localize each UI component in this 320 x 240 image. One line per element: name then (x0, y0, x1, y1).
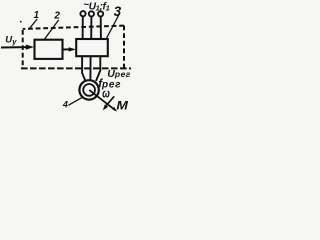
block 3 (inverter block) (76, 39, 108, 56)
wire: terminal L3 to block 3 (100, 16, 102, 39)
dashed enclosure 1, bottom edge (21, 67, 131, 69)
wire arrow from block 2 to block 3 (63, 47, 76, 51)
motor 4: outer circle (79, 80, 98, 99)
wire: control input arrow into block 2 (1, 45, 34, 50)
wire: terminal L1 to block 3 (82, 16, 84, 39)
leader line for label 2 (44, 20, 59, 40)
leader line for label 1 (29, 19, 38, 30)
leader line for label 3 (106, 15, 119, 39)
block 2 (control rectifier block) (35, 40, 63, 59)
svg-text:4: 4 (62, 99, 68, 109)
dashed enclosure 1, top edge (23, 26, 124, 29)
terminal circle L1 (80, 11, 85, 16)
dashed enclosure 1 (frequency converter unit), left edge (22, 30, 24, 68)
motor 4: inner circle (rotor) (83, 84, 95, 96)
wire: terminal L2 to block 3 (90, 16, 92, 39)
dashed enclosure 1, right edge (123, 26, 125, 69)
wire: block 3 to motor phase C (96, 56, 100, 81)
svg-text:Uу: Uу (5, 35, 17, 46)
terminal circle L3 (98, 11, 103, 16)
svg-text:ω: ω (102, 87, 110, 101)
M torque arrow (points SW) (103, 96, 114, 110)
leader line for label 4 (69, 98, 83, 106)
svg-text:M: M (116, 99, 128, 113)
shaft with ω arrow (points SE) (89, 90, 117, 112)
terminal circle L2 (89, 11, 94, 16)
wire: block 3 to motor phase A (82, 56, 85, 80)
svg-text:2: 2 (53, 11, 60, 22)
stray mark near enclosure corner (20, 21, 22, 23)
wire: block 3 to motor phase B (89, 56, 91, 80)
svg-text:Uрег: Uрег (107, 68, 131, 80)
